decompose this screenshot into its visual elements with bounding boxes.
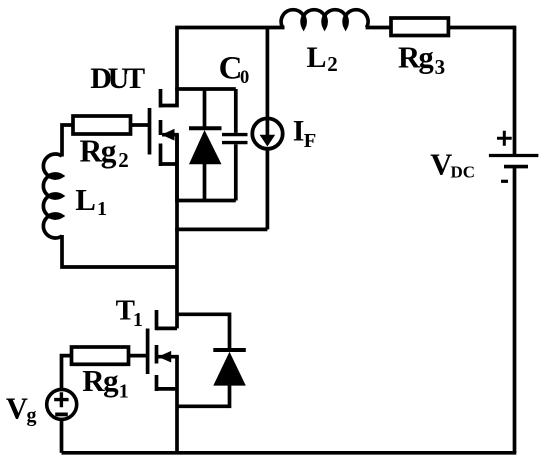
DUT gate bar [148, 108, 152, 155]
L2 valley joints [301, 18, 306, 29]
resistor Rg2 [73, 116, 131, 134]
wire T1 diode top connector [177, 314, 230, 350]
svg-text:DC: DC [451, 163, 476, 182]
T1 channel bottom dash [155, 375, 159, 391]
wire top rail to current source [266, 28, 270, 121]
capacitor C0 [222, 89, 248, 201]
transistor T1 [148, 310, 179, 391]
wire main vertical DUT source to T1 drain [175, 135, 179, 329]
wire Rg2 to DUT gate [131, 123, 150, 127]
wire Vg to Rg1 [62, 356, 73, 390]
wire Rg1 to T1 gate [129, 354, 148, 358]
svg-text:Rg: Rg [398, 41, 434, 75]
wire T1 source to bottom rail [175, 357, 179, 453]
D1 triangle [189, 130, 222, 164]
wire Rg3 to right rail [448, 26, 514, 30]
DUT box top [175, 87, 236, 91]
battery VDC short plate [504, 165, 528, 169]
battery minus sign [501, 180, 508, 183]
D1 cathode bar [189, 126, 222, 130]
svg-text:I: I [293, 114, 305, 147]
battery VDC long plate [489, 154, 539, 157]
svg-text:L: L [75, 182, 96, 217]
T1 body line [158, 355, 179, 359]
svg-text:V: V [6, 392, 28, 426]
T1 source lead [157, 387, 178, 391]
DUT body arrow [162, 129, 175, 141]
DUT body line [162, 133, 179, 137]
DUT source lead [161, 162, 178, 166]
inductor L2 [281, 10, 368, 28]
transistor DUT [150, 89, 179, 201]
D2 triangle [213, 352, 246, 386]
diode D1 (DUT antiparallel) [189, 89, 222, 201]
Vg plus sign [54, 392, 68, 407]
wire bottom rail [62, 451, 517, 455]
current source arrow head [260, 135, 276, 147]
wire right rail lower [513, 167, 517, 453]
svg-text:Rg: Rg [80, 133, 117, 168]
svg-text:1: 1 [97, 198, 107, 220]
wire right rail upper [513, 26, 517, 156]
svg-text:3: 3 [435, 55, 446, 79]
svg-text:DUT: DUT [90, 62, 145, 95]
wire top rail left [177, 28, 285, 90]
L1 valley joints [52, 173, 63, 178]
D1 bottom lead [203, 163, 207, 201]
resistor Rg1 [72, 347, 129, 364]
T1 channel top dash [155, 310, 159, 330]
svg-text:g: g [27, 405, 37, 427]
T1 body arrow [158, 351, 171, 363]
svg-text:2: 2 [118, 148, 129, 172]
DUT channel top dash [159, 89, 163, 108]
DUT source vertical [175, 135, 179, 201]
wire L1 bottom to main vertical [62, 235, 177, 267]
D2 cathode bar [213, 348, 246, 352]
svg-text:1: 1 [119, 381, 129, 403]
svg-text:Rg: Rg [82, 363, 119, 398]
T1 gate bar [146, 329, 150, 375]
DUT box bottom [175, 199, 236, 203]
svg-text:V: V [430, 148, 452, 182]
wire L2 to Rg3 [366, 26, 392, 30]
T1 channel mid dash [155, 345, 159, 364]
svg-text:0: 0 [240, 68, 249, 88]
C0 bottom lead [234, 144, 238, 200]
svg-text:F: F [304, 130, 317, 152]
Vg minus sign [55, 412, 68, 416]
DUT drain lead [161, 89, 178, 106]
C0 top lead [234, 89, 238, 133]
D1 top lead [203, 89, 207, 128]
wire Vg to bottom rail [60, 419, 64, 453]
DUT channel bottom dash [159, 144, 163, 167]
current source IF circle [252, 118, 282, 148]
wire lower connector [175, 228, 267, 232]
wire Rg2 left to L1 [62, 125, 74, 157]
T1 drain lead [157, 327, 178, 331]
inductor L1 [43, 154, 62, 238]
svg-text:C: C [219, 50, 243, 86]
battery plus sign [497, 131, 512, 146]
current source arrow line [266, 120, 270, 137]
wire T1 diode bottom connector [177, 385, 230, 407]
resistor Rg3 [391, 18, 448, 36]
voltage source Vg circle [47, 389, 77, 419]
C0 top plate [222, 133, 248, 136]
C0 bottom plate [222, 141, 248, 144]
wire current source to connector [266, 149, 270, 230]
svg-text:2: 2 [327, 52, 338, 76]
svg-text:L: L [307, 41, 327, 74]
svg-text:1: 1 [133, 309, 143, 331]
diode D2 (T1 antiparallel) [213, 350, 246, 386]
DUT channel mid dash [159, 120, 163, 135]
